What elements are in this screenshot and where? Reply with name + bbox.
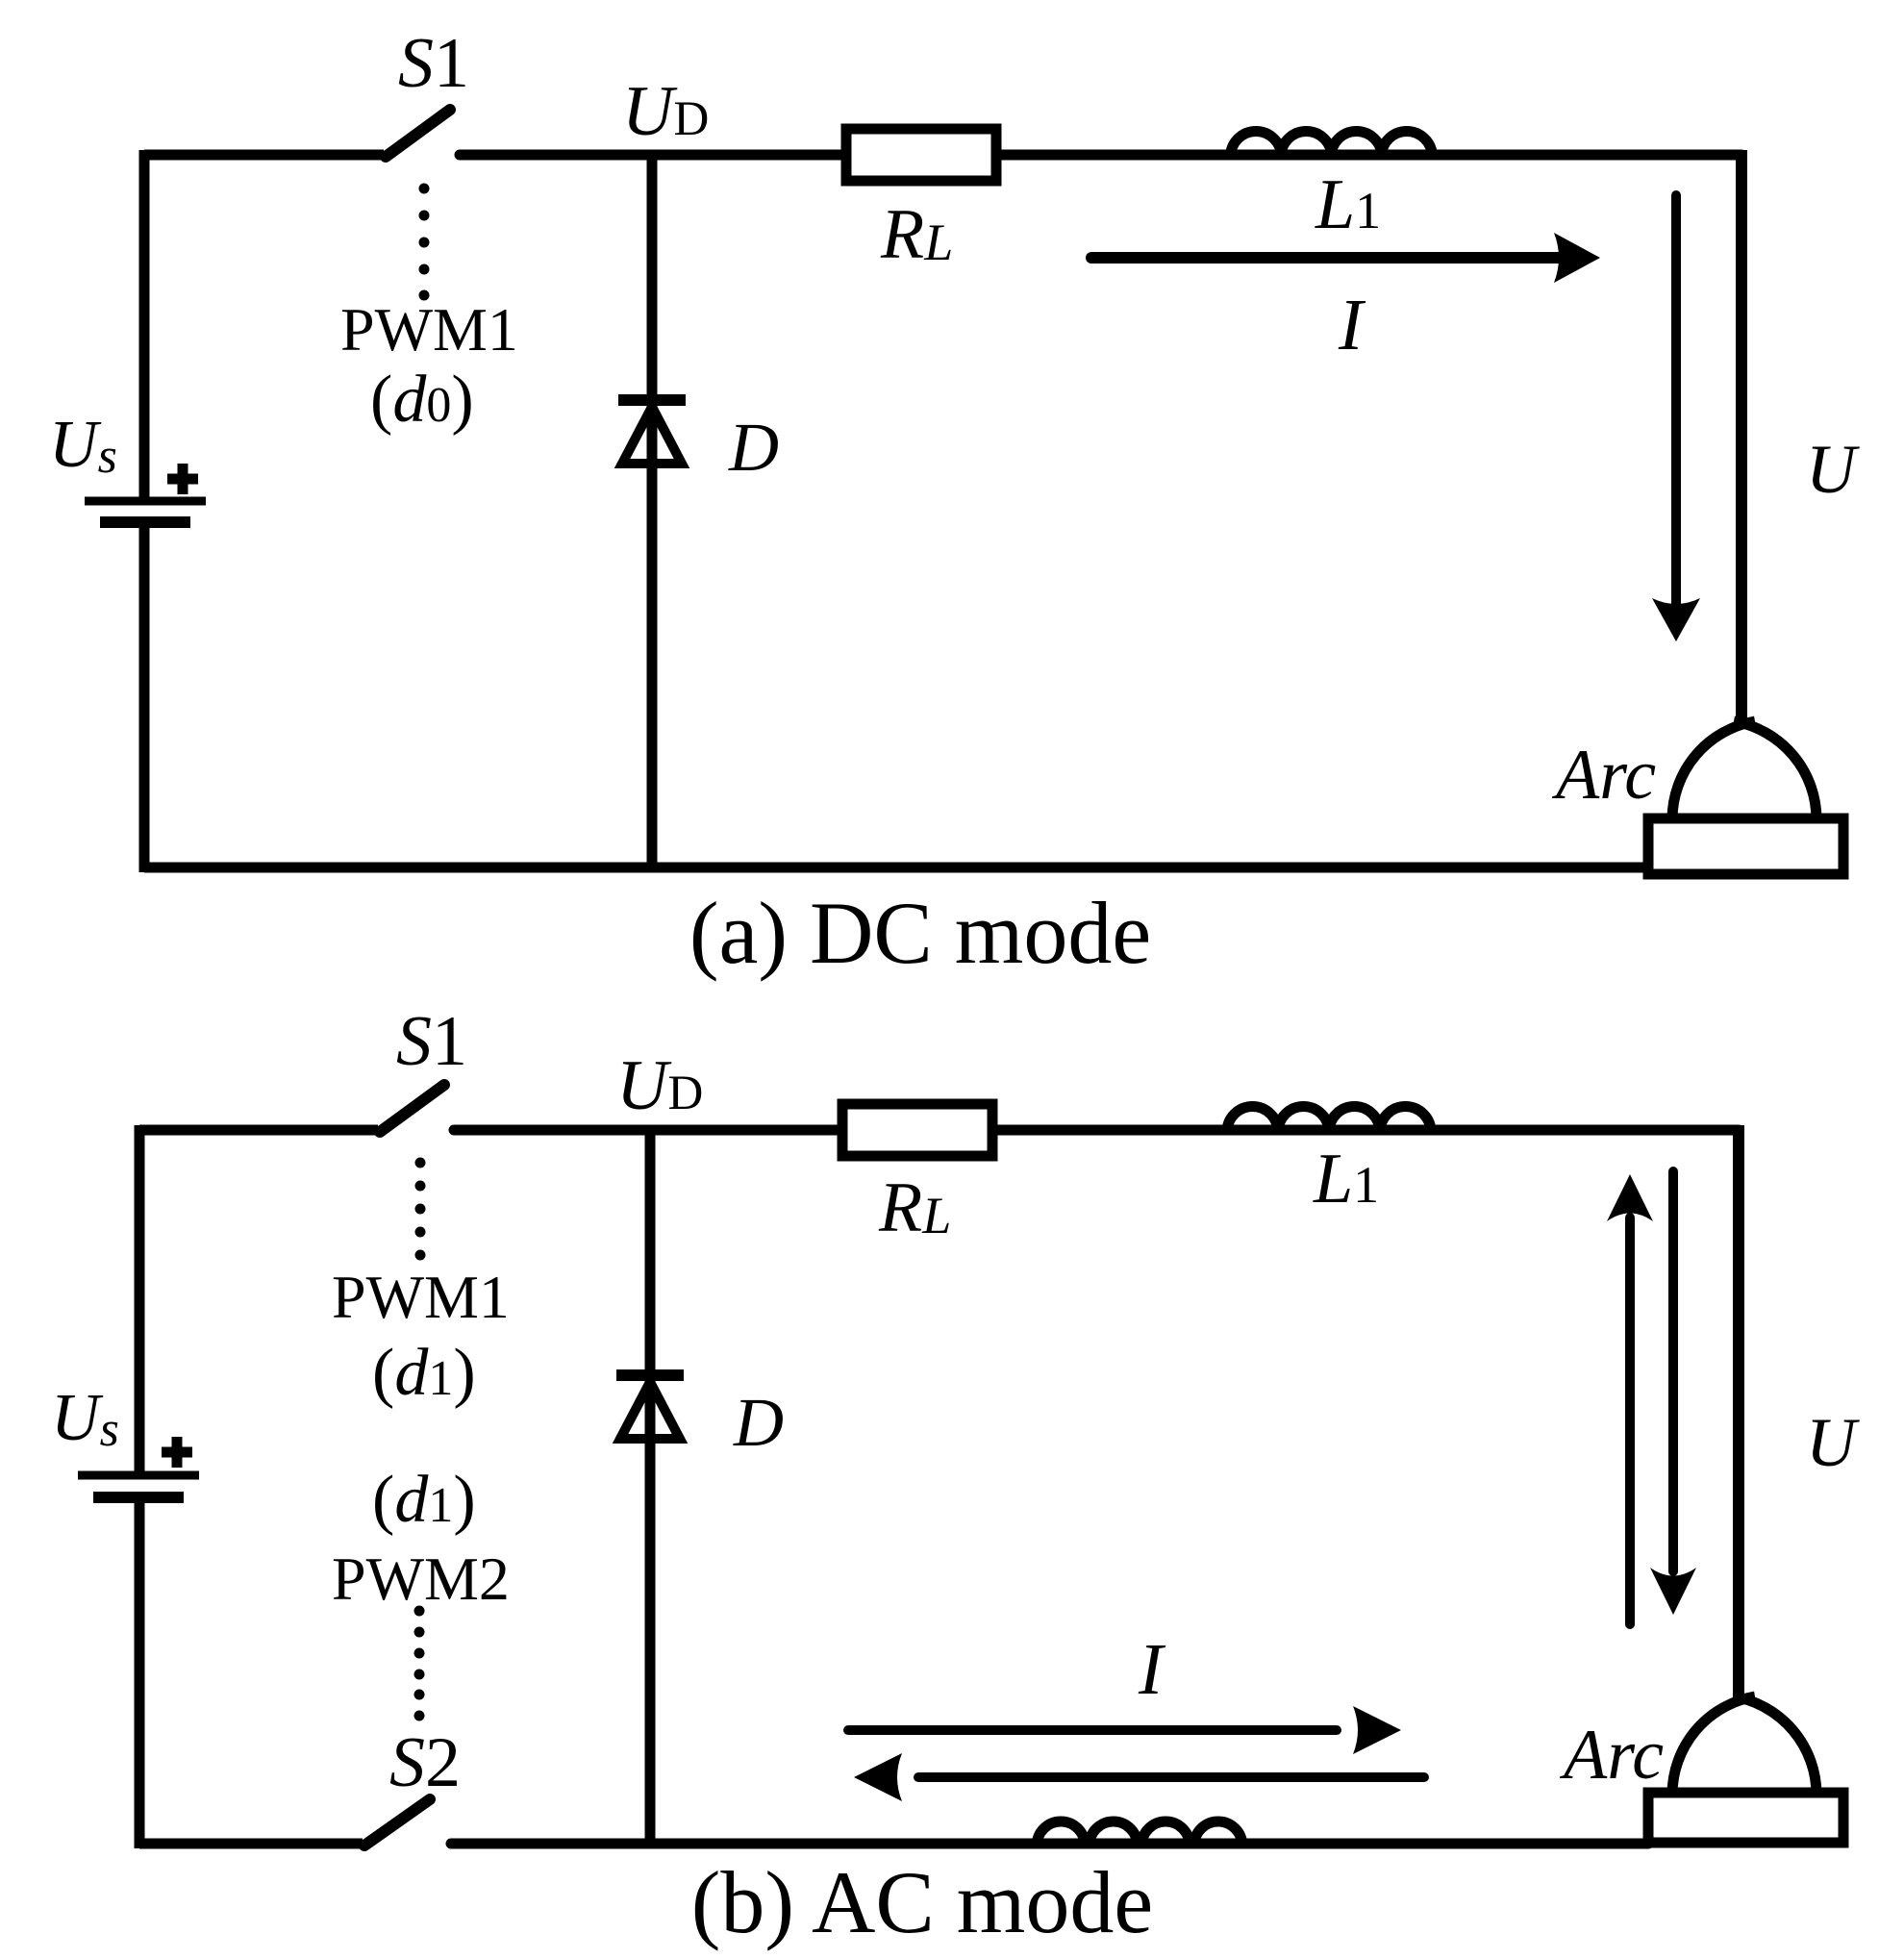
node UD vertical wire with diode D (647, 155, 658, 867)
svg-text:(d0): (d0) (370, 363, 474, 437)
node UD vertical wire with diode (b) (645, 1130, 656, 1844)
wire: left vertical from battery down to bottom wire (b) (135, 1497, 145, 1848)
diode D cathode bar (b) (616, 1369, 684, 1381)
svg-text:PWM1: PWM1 (332, 1263, 510, 1331)
dotted control line of S1 (419, 184, 430, 301)
battery Us plus sign (b) (162, 1437, 192, 1468)
wire: top horizontal from switch to right corner (460, 150, 1741, 161)
switch S1 blade (386, 110, 450, 157)
resistor RL (846, 129, 996, 181)
wire: left vertical from battery down to bottom wire (139, 522, 150, 872)
svg-text:Us: Us (51, 1381, 119, 1457)
wire: bottom horizontal left part to switch S2 (139, 1839, 363, 1849)
voltage arrow U (vertical, downward) (1671, 195, 1681, 606)
svg-text:U: U (1806, 431, 1860, 508)
svg-text:RL: RL (880, 195, 953, 274)
wire: left vertical from top corner down to battery (139, 150, 150, 501)
svg-text:I: I (1338, 285, 1366, 365)
arc electrode dome (two crossing arcs) (1672, 721, 1755, 819)
svg-text:Arc: Arc (1559, 1716, 1664, 1795)
battery Us: long top plate (85, 497, 206, 506)
battery Us short bottom plate (b) (93, 1492, 184, 1503)
svg-text:L1: L1 (1315, 165, 1381, 244)
svg-text:U: U (1806, 1404, 1860, 1481)
svg-text:S2: S2 (389, 1723, 461, 1802)
svg-text:S1: S1 (396, 1002, 467, 1081)
svg-text:Us: Us (49, 408, 117, 484)
diode D cathode bar (618, 394, 686, 406)
arc workpiece block (1648, 818, 1843, 874)
diode D triangle (b) (620, 1382, 680, 1439)
svg-text:(a) DC mode: (a) DC mode (689, 884, 1151, 982)
switch S1 blade (b) (380, 1085, 444, 1132)
arc electrode dome (b) (1672, 1696, 1755, 1795)
wire: bottom horizontal right part (b) (451, 1839, 1648, 1849)
current arrow down (b) (1668, 1171, 1678, 1571)
svg-text:PWM1: PWM1 (340, 295, 518, 364)
wire: left vertical from top corner down to battery (135, 1125, 145, 1475)
wire: top-left horizontal from corner to switch S1 (144, 150, 384, 161)
svg-text:L1: L1 (1313, 1140, 1379, 1218)
svg-text:S1: S1 (398, 24, 469, 103)
current arrow right (b) (848, 1725, 1337, 1735)
wire: right vertical down to arc electrode (b) (1733, 1125, 1744, 1700)
battery Us long top plate (b) (78, 1471, 199, 1480)
diode D triangle (622, 407, 682, 464)
wire: bottom horizontal (144, 863, 1648, 873)
current arrow up (b) (1625, 1218, 1635, 1624)
svg-text:I: I (1138, 1629, 1166, 1710)
inductor L1 (b) (1227, 1107, 1431, 1133)
dotted control line of S1 (b) (415, 1158, 426, 1261)
resistor RL (b) (842, 1104, 992, 1156)
svg-text:(d1): (d1) (372, 1463, 476, 1537)
svg-text:UD: UD (616, 1046, 703, 1125)
dotted control line of S2 (414, 1606, 425, 1721)
svg-text:RL: RL (878, 1168, 951, 1247)
svg-text:(b) AC mode: (b) AC mode (691, 1853, 1153, 1951)
inductor in bottom wire (b) (1037, 1821, 1242, 1846)
inductor L1 (1231, 132, 1433, 158)
svg-text:Arc: Arc (1551, 736, 1656, 815)
current arrow left (b) (918, 1772, 1424, 1782)
current arrow I (horizontal) (1091, 252, 1563, 264)
svg-text:D: D (728, 409, 779, 486)
wire: right vertical down to arc electrode (1736, 150, 1747, 729)
svg-text:D: D (733, 1384, 784, 1461)
svg-text:PWM2: PWM2 (332, 1545, 510, 1613)
svg-text:(d1): (d1) (372, 1336, 476, 1410)
battery Us: plus sign (167, 464, 198, 494)
wire: top horizontal from switch to right corner (b) (454, 1125, 1739, 1136)
switch S2 blade (364, 1799, 430, 1846)
arc workpiece block (b) (1648, 1793, 1843, 1843)
wire: top-left horizontal from corner to switch S1 (139, 1125, 378, 1136)
battery Us: short bottom plate (100, 516, 190, 528)
svg-text:UD: UD (622, 72, 709, 151)
